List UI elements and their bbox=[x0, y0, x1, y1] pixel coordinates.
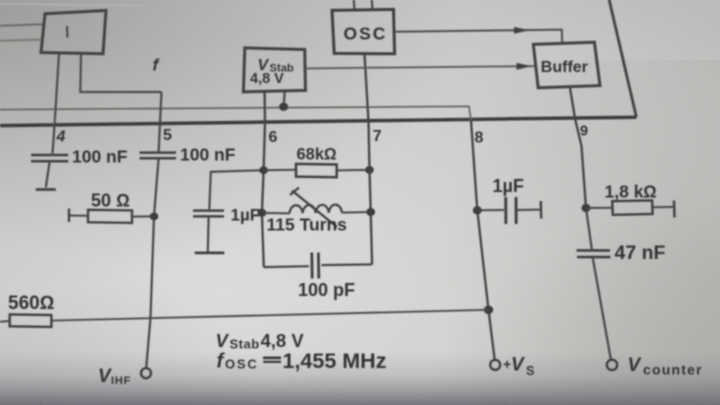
junction VStab/internal wire bbox=[279, 103, 288, 111]
capacitor C1 stub bbox=[46, 163, 50, 188]
block U2 VStab bbox=[243, 48, 305, 92]
block U1 OSC bbox=[332, 9, 395, 53]
junction pin5/R1 bbox=[150, 213, 159, 221]
junction pin7/68k bbox=[365, 166, 374, 174]
terminal VS bbox=[490, 360, 500, 370]
wire pin7 vertical bbox=[365, 54, 373, 264]
IC top border (faint) bbox=[0, 4, 148, 6]
wire 100pF left bbox=[264, 265, 309, 268]
equals sign bbox=[263, 357, 281, 360]
resistor R3 560 left lead bbox=[0, 320, 10, 323]
wire VStab bottom right lead bbox=[284, 92, 285, 107]
inductor L1 bbox=[290, 205, 342, 214]
junction pin8/1uF bbox=[473, 206, 482, 214]
wire 68k right bbox=[337, 169, 369, 172]
capacitor C3 stub bbox=[207, 218, 210, 252]
wire left entry 1 bbox=[0, 24, 44, 26]
wire 68k left bbox=[264, 169, 296, 171]
terminal VIHF bbox=[141, 368, 151, 378]
ground bar C1 bbox=[36, 188, 56, 191]
resistor R2 68k body bbox=[296, 164, 337, 177]
capacitor C2 100nF plates bbox=[140, 151, 177, 154]
arrowhead OSC line bbox=[514, 27, 529, 34]
trimmer tick L1 bbox=[290, 188, 299, 196]
IC bottom border bus bbox=[0, 117, 636, 125]
wire pin6 vertical bbox=[262, 92, 265, 267]
trimmer arrow L1 bbox=[292, 191, 337, 228]
block I1 inner tick bbox=[66, 26, 69, 38]
wire pin5 to VIHF bbox=[146, 158, 158, 368]
capacitor C7 47nF plates bbox=[577, 249, 611, 252]
resistor R4 1.8k body bbox=[612, 200, 652, 214]
1.8k end tick bbox=[673, 201, 676, 218]
pin 4 lower lead bbox=[53, 126, 55, 154]
OSC top lead 1 bbox=[353, 0, 356, 10]
internal bus wire to pin 8 bbox=[0, 106, 471, 120]
resistor R1 50ohm end tick bbox=[68, 209, 70, 223]
wire I1 to pin 4 bbox=[55, 54, 60, 126]
wire 1uF branch to pin6 bbox=[209, 170, 263, 209]
resistor R1 right lead bbox=[132, 215, 154, 217]
block U3 Buffer bbox=[533, 42, 600, 88]
wire OSC to Buffer top bbox=[395, 30, 563, 43]
junction pin7/coil bbox=[366, 208, 375, 216]
resistor R3 560 body bbox=[10, 314, 52, 327]
wire 100pF right bbox=[322, 263, 373, 266]
wire VStab to Buffer bbox=[306, 66, 536, 68]
capacitor C1 100nF plates bbox=[31, 154, 68, 157]
capacitor C3 1uF plates bbox=[193, 209, 224, 212]
junction pin6/coil bbox=[258, 209, 267, 217]
junction pin9/1.8k bbox=[582, 204, 591, 212]
wire Buffer to pin9 bbox=[570, 88, 586, 208]
capacitor C6 1uF plates bbox=[504, 197, 507, 224]
wire 1.8k right lead bbox=[652, 206, 673, 208]
wire 1uF pin8 left lead bbox=[477, 209, 504, 211]
IC right border bbox=[609, 0, 636, 117]
wire 1.8k left lead bbox=[586, 207, 612, 209]
wire 1uF pin8 right lead bbox=[518, 209, 540, 211]
ground bar C3 bbox=[195, 252, 225, 255]
bottom wire 560 to pin8 bbox=[51, 310, 488, 321]
wire pin8 vertical bbox=[471, 121, 495, 360]
resistor R1 body bbox=[88, 210, 132, 223]
block I1 bbox=[41, 11, 106, 54]
pin 5 upper lead bbox=[159, 92, 162, 152]
wire coil right bbox=[342, 211, 371, 214]
wire I1 jog to pin 5 bbox=[80, 54, 161, 92]
arrowhead into Buffer bbox=[517, 63, 532, 70]
OSC top lead 2 bbox=[371, 0, 374, 10]
resistor R1 left lead bbox=[69, 215, 88, 217]
1uF end tick bbox=[540, 201, 543, 219]
wire left entry 2 bbox=[0, 40, 42, 41]
junction pin6/68k bbox=[259, 166, 268, 174]
capacitor C4 100pF plates bbox=[310, 253, 313, 279]
wire 47nF to Vcounter bbox=[593, 258, 611, 360]
wire pin9 to 47nF bbox=[586, 208, 592, 249]
junction pin8/bottom wire bbox=[484, 306, 493, 315]
terminal Vcounter bbox=[607, 360, 617, 370]
wire coil left bbox=[262, 212, 290, 215]
